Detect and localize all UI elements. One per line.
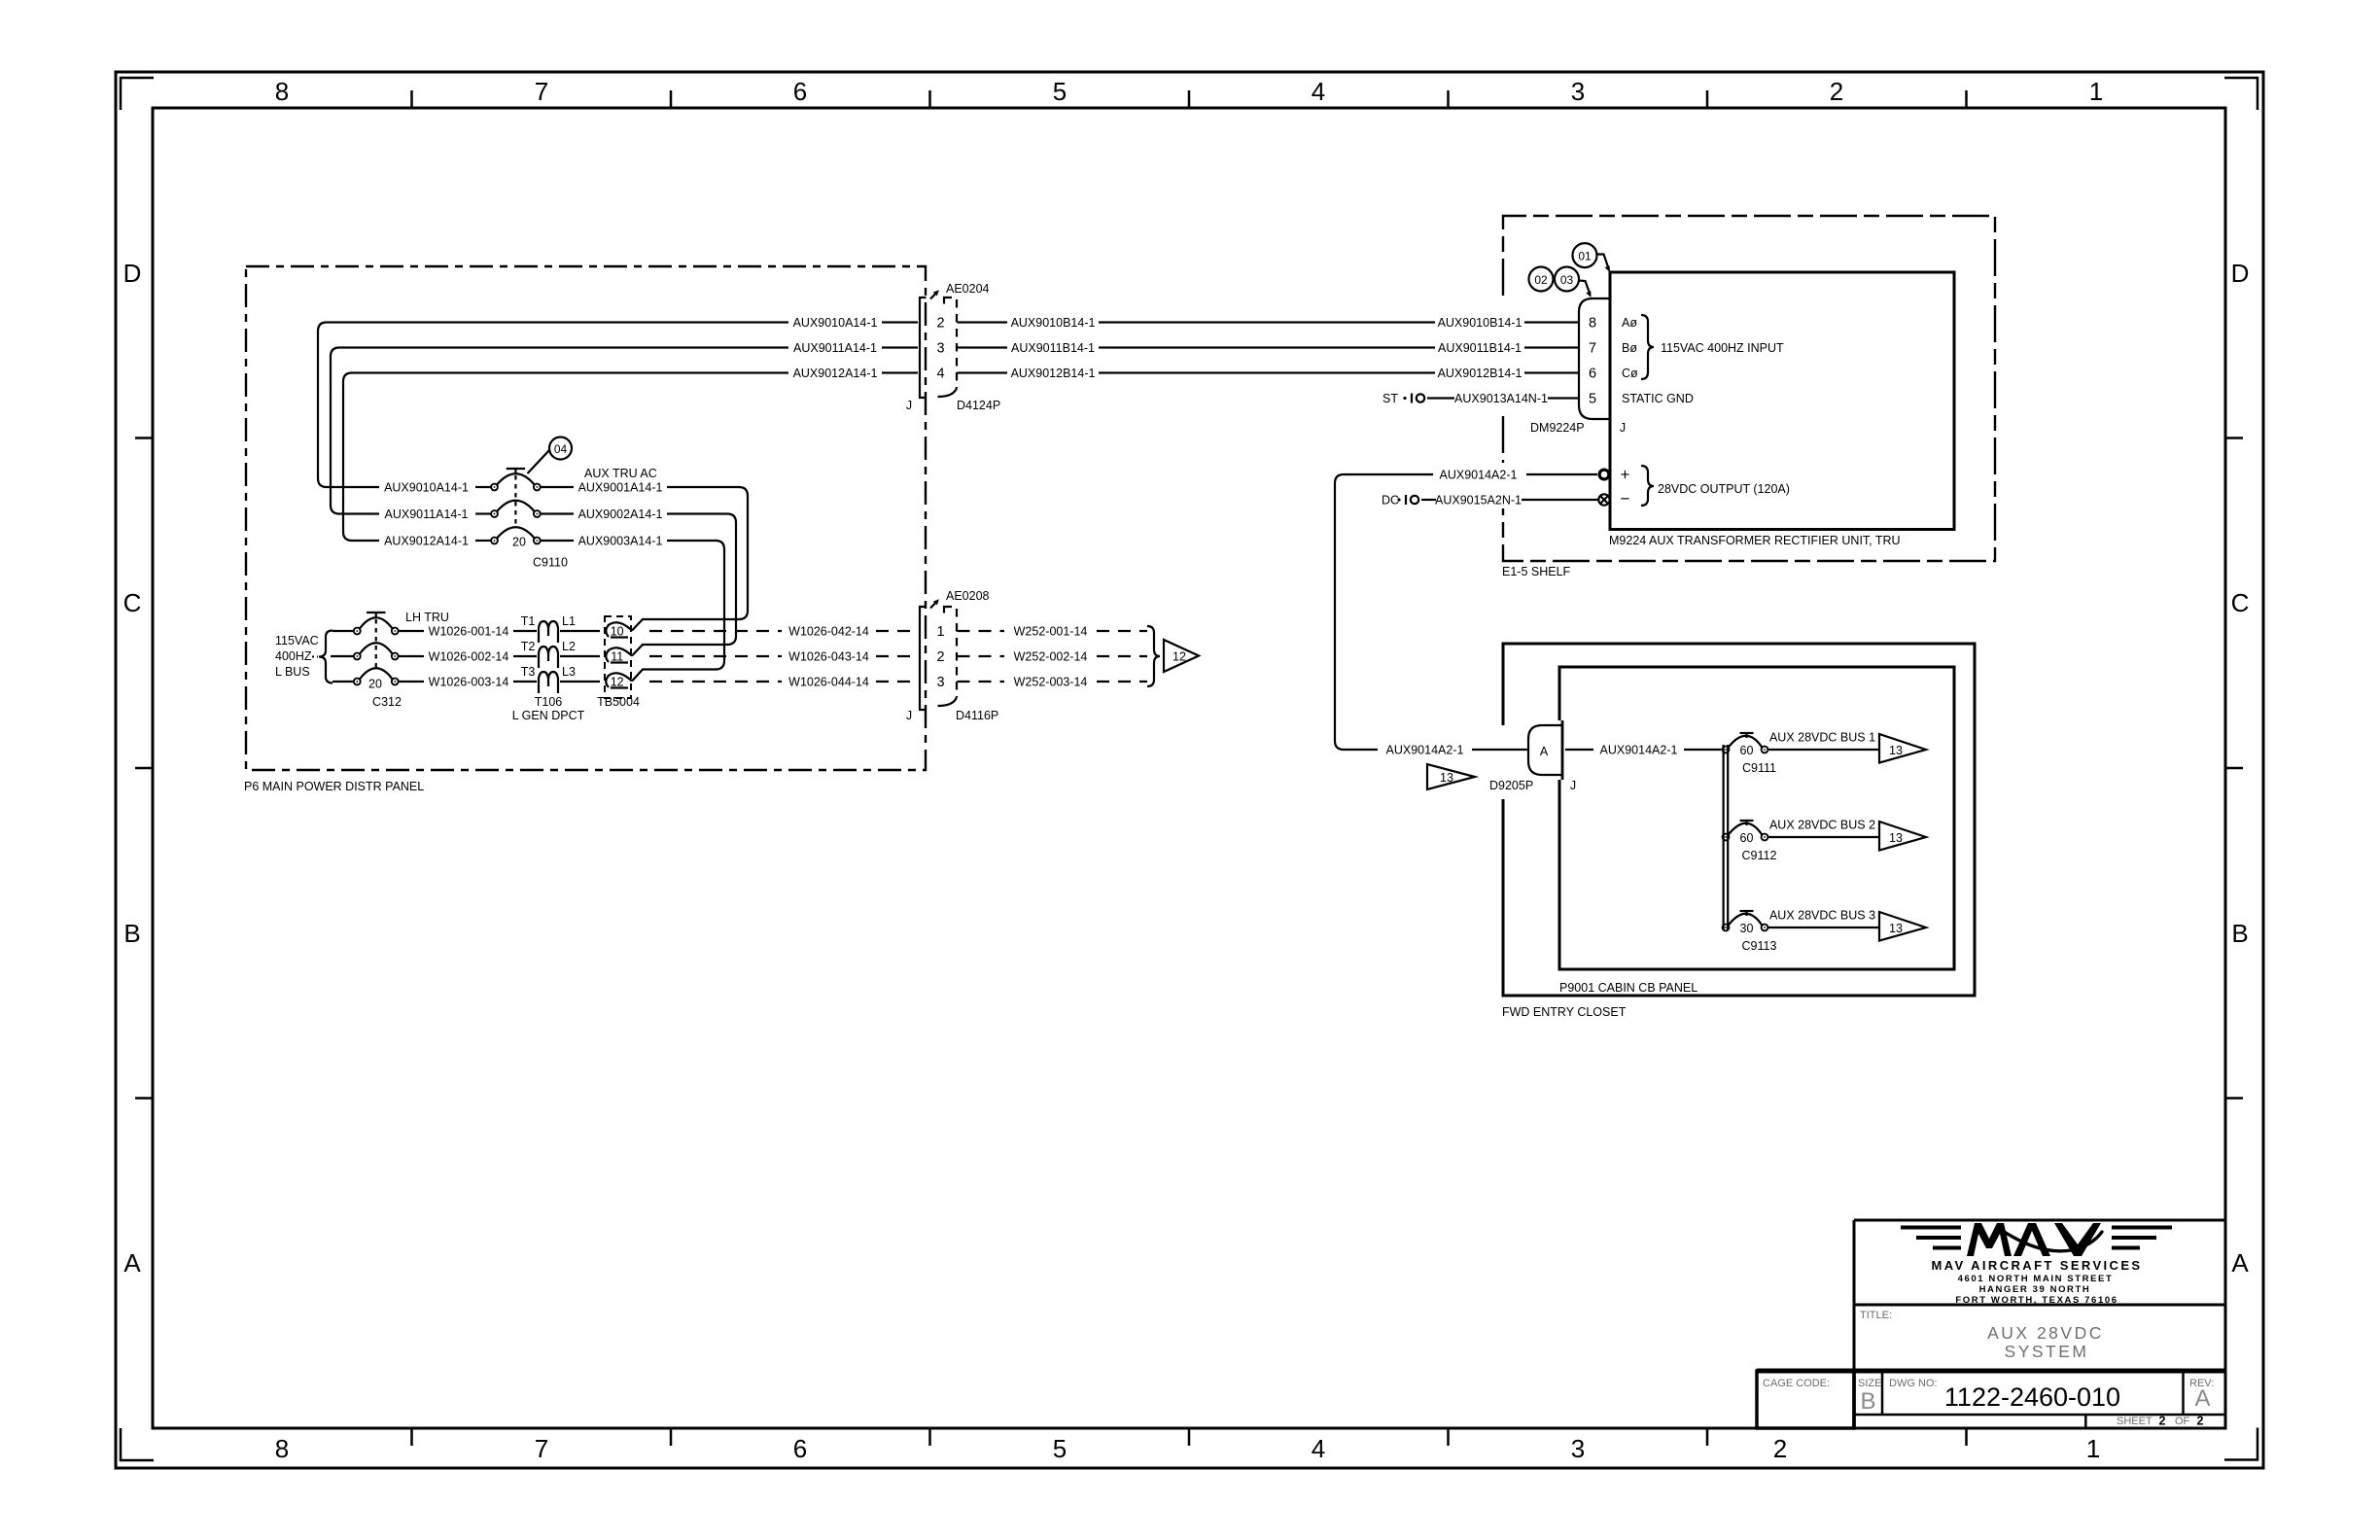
svg-text:20: 20 [368,678,382,691]
svg-text:12: 12 [1172,650,1186,664]
svg-text:W1026-003-14: W1026-003-14 [429,676,509,689]
svg-text:W252-002-14: W252-002-14 [1014,650,1088,664]
svg-text:6: 6 [793,1434,807,1463]
svg-text:AUX9010A14-1: AUX9010A14-1 [793,316,878,330]
svg-text:A: A [2231,1248,2249,1277]
svg-text:W252-003-14: W252-003-14 [1014,676,1088,689]
svg-text:115VAC 400HZ INPUT: 115VAC 400HZ INPUT [1661,341,1784,355]
svg-text:W1026-042-14: W1026-042-14 [788,625,869,639]
svg-text:2: 2 [936,316,944,332]
svg-text:−: − [1621,490,1630,508]
svg-text:115VAC: 115VAC [275,634,319,647]
svg-text:D: D [123,259,142,288]
svg-text:1: 1 [2086,1434,2100,1463]
svg-text:30: 30 [1740,922,1754,935]
svg-text:W1026-001-14: W1026-001-14 [429,625,509,639]
svg-text:AUX 28VDC BUS 3: AUX 28VDC BUS 3 [1769,909,1875,923]
svg-text:A: A [2194,1385,2210,1412]
svg-text:AUX9012B14-1: AUX9012B14-1 [1011,367,1096,380]
svg-text:03: 03 [1560,273,1574,287]
svg-text:L3: L3 [562,665,576,679]
svg-text:T106: T106 [535,695,563,709]
svg-text:TITLE:: TITLE: [1860,1310,1892,1321]
svg-text:C9113: C9113 [1742,939,1777,953]
svg-text:6: 6 [793,77,807,106]
svg-text:LH TRU: LH TRU [405,611,449,624]
svg-text:HANGER 39 NORTH: HANGER 39 NORTH [1979,1284,2091,1295]
svg-text:AUX9013A14N-1: AUX9013A14N-1 [1454,392,1548,405]
svg-text:AUX9011B14-1: AUX9011B14-1 [1011,341,1095,355]
svg-text:C: C [2231,588,2250,617]
svg-text:AUX9010A14-1: AUX9010A14-1 [384,481,469,495]
svg-text:12: 12 [611,676,624,689]
svg-text:C312: C312 [372,695,402,709]
svg-text:L2: L2 [562,640,576,653]
svg-text:L BUS: L BUS [275,665,310,679]
svg-text:T1: T1 [521,614,536,628]
svg-text:P6 MAIN POWER DISTR PANEL: P6 MAIN POWER DISTR PANEL [244,780,424,793]
svg-text:TB5004: TB5004 [597,695,640,709]
svg-text:AUX9012A14-1: AUX9012A14-1 [384,535,469,548]
svg-text:1: 1 [2089,77,2103,106]
svg-text:FWD ENTRY CLOSET: FWD ENTRY CLOSET [1502,1005,1627,1019]
svg-text:AUX TRU AC: AUX TRU AC [584,467,657,480]
svg-text:Cø: Cø [1622,367,1638,380]
svg-text:W252-001-14: W252-001-14 [1014,625,1088,639]
svg-text:11: 11 [611,650,623,664]
svg-text:5: 5 [1053,1434,1067,1463]
svg-text:STATIC GND: STATIC GND [1622,392,1694,405]
svg-text:5: 5 [1589,392,1596,407]
svg-text:M9224 AUX TRANSFORMER RECTIFIE: M9224 AUX TRANSFORMER RECTIFIER UNIT, TR… [1609,534,1901,547]
svg-text:3: 3 [936,675,944,690]
svg-text:AUX 28VDC BUS 1: AUX 28VDC BUS 1 [1769,731,1875,745]
svg-text:+: + [1621,466,1630,484]
svg-text:D4116P: D4116P [956,709,998,722]
svg-text:AUX 28VDC BUS 2: AUX 28VDC BUS 2 [1769,819,1875,832]
svg-text:AUX9001A14-1: AUX9001A14-1 [578,481,663,495]
svg-text:60: 60 [1740,831,1754,845]
svg-text:B: B [1860,1388,1875,1415]
svg-text:ST: ST [1382,392,1398,405]
svg-text:CAGE CODE:: CAGE CODE: [1763,1378,1830,1389]
svg-text:AUX9011A14-1: AUX9011A14-1 [793,341,877,355]
svg-text:DWG NO:: DWG NO: [1889,1378,1938,1389]
svg-text:3: 3 [1571,77,1585,106]
svg-text:C9110: C9110 [533,556,568,570]
svg-text:A: A [1540,745,1549,758]
svg-text:D: D [2231,259,2250,288]
svg-text:AE0208: AE0208 [946,589,990,603]
svg-text:W1026-044-14: W1026-044-14 [788,676,869,689]
svg-text:28VDC OUTPUT (120A): 28VDC OUTPUT (120A) [1658,482,1790,496]
svg-text:C9112: C9112 [1742,849,1777,862]
svg-text:D9205P: D9205P [1489,779,1533,792]
svg-text:20: 20 [512,536,526,549]
svg-text:1122-2460-010: 1122-2460-010 [1944,1382,2120,1412]
svg-text:D4124P: D4124P [957,399,1000,412]
svg-text:6: 6 [1589,367,1596,382]
svg-text:2: 2 [1773,1434,1787,1463]
svg-text:8: 8 [275,1434,289,1463]
svg-text:AUX9002A14-1: AUX9002A14-1 [578,507,663,521]
svg-text:SYSTEM: SYSTEM [2005,1342,2089,1361]
svg-text:DM9224P: DM9224P [1530,421,1585,435]
svg-text:60: 60 [1740,744,1754,757]
svg-text:2: 2 [2197,1415,2204,1428]
svg-text:4601 NORTH MAIN STREET: 4601 NORTH MAIN STREET [1958,1274,2114,1284]
svg-text:AE0204: AE0204 [946,282,990,296]
svg-text:02: 02 [1534,273,1548,287]
svg-text:10: 10 [611,625,624,639]
svg-text:01: 01 [1578,250,1592,263]
svg-text:AUX9014A2-1: AUX9014A2-1 [1600,744,1678,757]
svg-text:FORT WORTH, TEXAS 76106: FORT WORTH, TEXAS 76106 [1955,1295,2117,1306]
svg-text:2: 2 [1830,77,1843,106]
svg-text:13: 13 [1889,831,1903,845]
svg-text:AUX9012A14-1: AUX9012A14-1 [793,367,878,380]
svg-text:04: 04 [554,442,568,456]
svg-text:400HZ: 400HZ [275,649,312,663]
svg-text:13: 13 [1889,922,1903,935]
svg-text:C: C [123,588,142,617]
svg-text:3: 3 [1571,1434,1585,1463]
svg-text:4: 4 [1312,1434,1325,1463]
svg-text:W1026-043-14: W1026-043-14 [788,650,869,664]
svg-text:AUX9011A14-1: AUX9011A14-1 [385,507,469,521]
svg-text:L GEN DPCT: L GEN DPCT [512,709,585,722]
svg-text:DC: DC [1382,494,1399,507]
svg-text:13: 13 [1440,771,1453,785]
svg-text:B: B [123,919,140,948]
svg-text:A: A [123,1248,141,1277]
svg-text:3: 3 [936,341,944,357]
svg-text:B: B [2231,919,2248,948]
svg-text:4: 4 [936,367,944,382]
svg-text:MAV AIRCRAFT SERVICES: MAV AIRCRAFT SERVICES [1931,1258,2142,1273]
svg-text:J: J [906,709,912,722]
svg-text:AUX 28VDC: AUX 28VDC [1987,1323,2104,1343]
svg-text:AUX9014A2-1: AUX9014A2-1 [1440,469,1518,482]
svg-text:J: J [1620,421,1626,435]
svg-text:AUX9012B14-1: AUX9012B14-1 [1438,367,1522,380]
svg-text:1: 1 [936,624,944,640]
svg-text:Aø: Aø [1622,316,1637,330]
svg-text:2: 2 [936,649,944,665]
svg-text:2: 2 [2159,1415,2166,1428]
svg-text:8: 8 [1589,316,1596,332]
svg-text:AUX9015A2N-1: AUX9015A2N-1 [1435,494,1522,507]
svg-text:L1: L1 [562,614,576,628]
svg-text:Bø: Bø [1622,341,1637,355]
svg-text:W1026-002-14: W1026-002-14 [429,650,509,664]
svg-text:OF: OF [2175,1416,2190,1427]
svg-text:AUX9003A14-1: AUX9003A14-1 [578,535,663,548]
svg-text:7: 7 [535,1434,548,1463]
svg-text:P9001 CABIN CB PANEL: P9001 CABIN CB PANEL [1559,981,1697,995]
svg-text:SHEET: SHEET [2117,1416,2152,1427]
svg-text:5: 5 [1053,77,1067,106]
svg-text:T2: T2 [521,640,536,653]
svg-text:J: J [906,399,912,412]
svg-text:AUX9011B14-1: AUX9011B14-1 [1438,341,1522,355]
svg-text:AUX9010B14-1: AUX9010B14-1 [1438,316,1522,330]
svg-text:4: 4 [1312,77,1325,106]
svg-text:7: 7 [535,77,548,106]
svg-text:C9111: C9111 [1742,761,1776,775]
svg-text:T3: T3 [521,665,536,679]
svg-text:13: 13 [1889,744,1903,757]
svg-text:8: 8 [275,77,289,106]
svg-text:E1-5 SHELF: E1-5 SHELF [1502,565,1571,578]
svg-text:AUX9010B14-1: AUX9010B14-1 [1011,316,1096,330]
svg-text:J: J [1570,779,1576,792]
svg-text:AUX9014A2-1: AUX9014A2-1 [1386,744,1464,757]
svg-text:7: 7 [1589,341,1596,357]
